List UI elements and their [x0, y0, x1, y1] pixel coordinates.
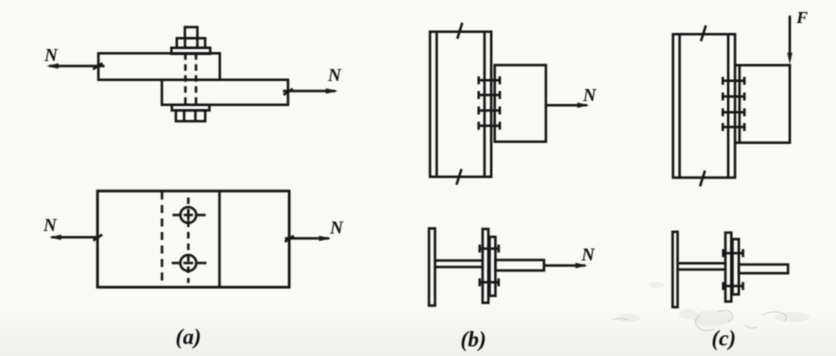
gusset plate	[739, 265, 788, 274]
bracket plate	[495, 65, 546, 142]
web	[678, 262, 726, 265]
bolt row 2	[479, 91, 500, 99]
bracket plate	[740, 65, 790, 143]
bolt row 3	[479, 107, 500, 115]
left arrow N plan	[52, 236, 97, 239]
bottom nut	[176, 110, 205, 121]
break kink right edge plan	[285, 236, 294, 242]
bolt top	[723, 249, 743, 257]
column outline	[430, 32, 491, 177]
arrow F	[789, 16, 792, 60]
faint scan scribbles	[612, 310, 787, 330]
right flange	[725, 233, 731, 302]
svg-text:F: F	[796, 8, 809, 27]
column flange inner lines	[435, 32, 438, 177]
bolt circle bottom	[180, 255, 196, 271]
bottom plate	[162, 80, 288, 105]
visible plate edge	[218, 192, 221, 288]
column flange inner lines	[678, 34, 681, 177]
bolt row 2	[723, 93, 745, 101]
side dashes top circle	[173, 214, 180, 217]
bottom washer	[172, 105, 210, 111]
arrow N b plan	[544, 264, 585, 267]
hidden edge dashed	[161, 192, 164, 288]
web	[435, 259, 483, 262]
svg-text:(c): (c)	[712, 326, 736, 351]
left flange	[429, 228, 435, 305]
bolt row 4	[479, 122, 500, 130]
svg-text:N: N	[44, 45, 59, 65]
break kink left edge	[93, 63, 103, 69]
arrow N b	[547, 104, 587, 107]
break slash top	[701, 25, 706, 41]
bolt bottom	[723, 282, 743, 290]
top plate	[98, 53, 219, 80]
svg-text:N: N	[327, 65, 342, 85]
break kink left edge plan	[93, 235, 102, 241]
top nut	[177, 38, 205, 48]
end plate	[733, 239, 739, 294]
bolt end square	[185, 27, 198, 38]
svg-text:N: N	[43, 215, 58, 235]
plate rectangle	[98, 191, 290, 287]
end plate	[490, 237, 496, 296]
bolt top	[480, 245, 499, 253]
svg-text:N: N	[582, 85, 597, 105]
bolt shank hidden lines	[184, 53, 187, 105]
bolt centerline vertical	[187, 198, 190, 284]
bolt row 3	[723, 108, 745, 116]
bolt bottom	[480, 278, 499, 286]
right arrow N	[283, 90, 336, 93]
bolt row 4	[723, 123, 745, 131]
bolt circle top	[180, 207, 196, 223]
break kink right edge	[284, 89, 293, 95]
left flange	[673, 232, 678, 307]
svg-text:(b): (b)	[461, 327, 487, 352]
right arrow N plan	[285, 237, 329, 240]
svg-text:N: N	[581, 245, 596, 265]
left arrow N	[49, 65, 105, 68]
break slash bottom	[457, 169, 462, 185]
side dashes bottom circle	[172, 262, 180, 265]
right flange	[483, 229, 489, 303]
svg-text:(a): (a)	[176, 324, 202, 349]
bolt row 1	[723, 77, 745, 85]
top washer	[171, 48, 210, 54]
bolt row 1	[479, 76, 500, 84]
break slash bottom	[700, 171, 705, 187]
column outline	[673, 34, 735, 177]
svg-text:N: N	[329, 218, 344, 238]
break slash top	[457, 23, 462, 39]
gusset plate	[495, 260, 544, 271]
